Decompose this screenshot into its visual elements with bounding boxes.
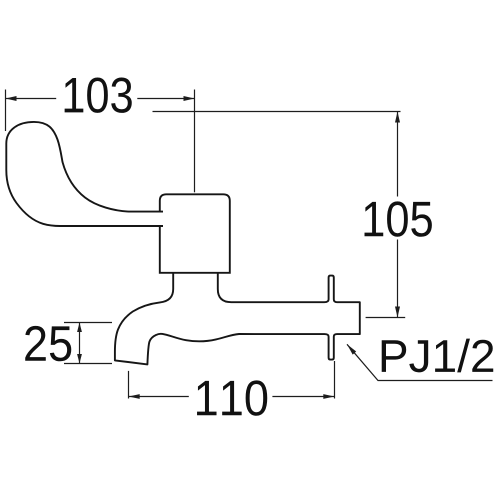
dim 110 line left segment xyxy=(129,396,189,398)
arrowhead leader PJ1/2 xyxy=(347,344,356,354)
arrowhead 105 top xyxy=(395,112,400,123)
dim 105 line upper segment xyxy=(397,112,399,197)
arrowhead 105 bottom xyxy=(395,307,400,318)
dim 105 extension line top xyxy=(153,111,401,113)
arrowhead 110 right xyxy=(323,394,334,399)
dim 110 line right segment xyxy=(272,396,334,398)
dim 103 line right segment xyxy=(137,98,194,100)
label PJ1/2 xyxy=(382,339,494,373)
arrowhead 103 left xyxy=(6,96,17,101)
dim 105 line lower segment xyxy=(397,240,399,318)
dim 103 extension line left xyxy=(5,90,7,132)
bonnet cap xyxy=(160,194,230,272)
dim 110 extension line left xyxy=(128,371,130,399)
arrowhead 25 top xyxy=(77,323,82,333)
dim text 103 xyxy=(65,77,132,112)
leader line PJ1/2 xyxy=(347,344,493,380)
dim 103 extension line right xyxy=(194,90,196,193)
dim 105 extension line bottom xyxy=(366,317,406,319)
arrowhead 110 left xyxy=(129,394,140,399)
dim text 105 xyxy=(365,201,432,236)
arrowhead 103 right xyxy=(184,96,195,101)
dim text 25 xyxy=(25,326,71,361)
dim text 110 xyxy=(197,380,267,415)
dim 25 line xyxy=(79,323,81,364)
dim 25 extension line top xyxy=(64,322,112,324)
dim 110 extension line right xyxy=(334,361,336,399)
dim 103 line left segment xyxy=(6,98,57,100)
handle lever (white fill mask) xyxy=(6,122,163,226)
faucet body outline (spout, underside belly, pipe, flange tabs, thread block) xyxy=(115,272,360,365)
dim 25 extension line bottom xyxy=(64,363,112,365)
arrowhead 25 bottom xyxy=(77,354,82,364)
handle lever outline xyxy=(6,122,163,226)
